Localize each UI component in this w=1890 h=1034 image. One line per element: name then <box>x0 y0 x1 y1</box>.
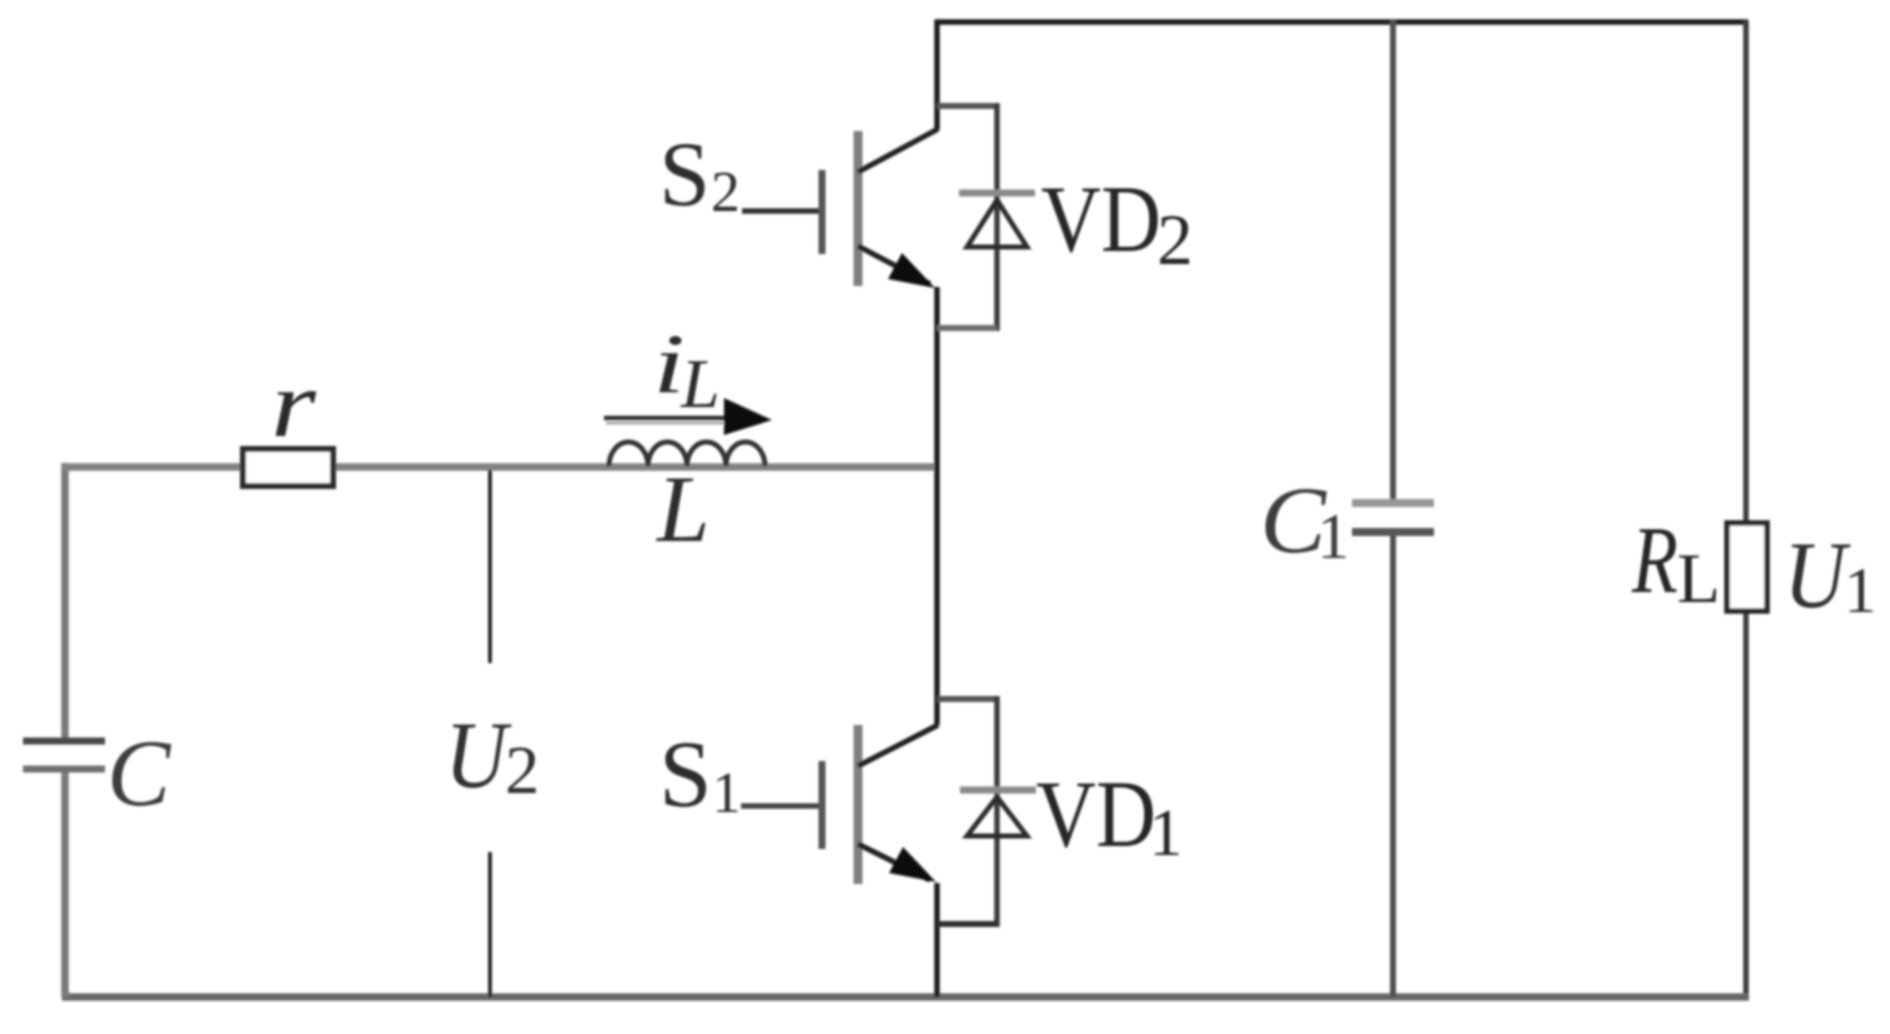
wire mid rail middle segment <box>934 287 940 725</box>
current arrow iL <box>604 398 772 435</box>
svg-text:1: 1 <box>1317 501 1350 573</box>
svg-text:2: 2 <box>1157 200 1193 280</box>
diode VD1 branch wire top <box>937 696 997 702</box>
wire right branch <box>1743 20 1749 997</box>
diode VD2 <box>959 193 1035 247</box>
svg-text:L: L <box>655 456 710 562</box>
wire top rail <box>935 19 1749 25</box>
svg-text:1: 1 <box>712 760 741 825</box>
wire left branch lower <box>61 766 69 997</box>
svg-text:R: R <box>1631 507 1678 613</box>
node U2 sense line upper <box>488 470 492 663</box>
svg-text:S: S <box>659 123 710 225</box>
node U2 sense line lower <box>488 852 492 997</box>
wire input horizontal <box>62 463 934 471</box>
svg-text:U: U <box>445 702 512 808</box>
svg-text:C: C <box>107 720 172 826</box>
wire left branch upper <box>61 463 69 744</box>
inductor L <box>609 442 765 466</box>
svg-text:2: 2 <box>711 159 740 224</box>
svg-text:VD: VD <box>1036 761 1156 867</box>
transistor S1 (IGBT) <box>741 725 938 884</box>
diode VD2 branch wire top <box>937 103 997 109</box>
capacitor C1 <box>1352 503 1434 532</box>
diode VD1 branch wire bottom <box>937 921 997 927</box>
wire bottom rail <box>62 993 1749 1001</box>
svg-text:U: U <box>1784 522 1851 628</box>
resistor RL <box>1727 523 1767 611</box>
svg-text:L: L <box>1677 540 1720 618</box>
resistor r <box>243 449 333 486</box>
svg-text:2: 2 <box>505 732 540 808</box>
capacitor C1 wire upper <box>1390 20 1396 506</box>
diode VD1 <box>960 790 1036 836</box>
svg-text:1: 1 <box>1149 796 1183 870</box>
svg-text:S: S <box>659 721 712 827</box>
svg-text:VD: VD <box>1041 166 1161 272</box>
wire mid rail lower segment <box>934 883 940 997</box>
capacitor C <box>23 741 105 769</box>
diode VD2 branch wire bottom <box>937 325 997 331</box>
svg-text:1: 1 <box>1844 555 1877 627</box>
svg-text:r: r <box>271 351 317 457</box>
diode VD2 branch wire vertical <box>994 103 1000 331</box>
diode VD1 branch wire vertical <box>994 696 1000 927</box>
wire mid rail upper segment <box>934 20 940 131</box>
svg-text:L: L <box>680 346 720 423</box>
capacitor C1 wire lower <box>1390 529 1396 997</box>
transistor S2 (IGBT) <box>742 129 938 288</box>
